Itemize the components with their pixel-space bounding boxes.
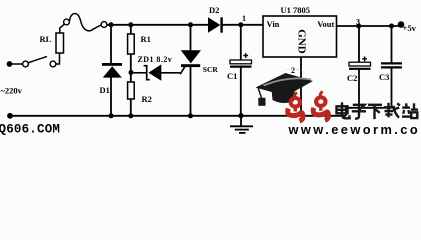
svg-text:GND: GND: [295, 29, 307, 54]
svg-text:Vin: Vin: [267, 19, 280, 29]
svg-text:~220v: ~220v: [1, 86, 23, 96]
svg-text:Q606.COM: Q606.COM: [0, 122, 60, 136]
svg-text:C1: C1: [227, 71, 237, 81]
svg-text:Vout: Vout: [317, 19, 334, 29]
svg-text:C2: C2: [347, 73, 357, 83]
svg-text:R1: R1: [141, 34, 151, 44]
svg-text:3: 3: [356, 18, 360, 27]
svg-text:D2: D2: [209, 5, 219, 15]
svg-text:D1: D1: [100, 85, 110, 95]
svg-text:ZD1 8.2v: ZD1 8.2v: [138, 55, 173, 64]
svg-text:U1 7805: U1 7805: [281, 5, 311, 15]
svg-text:RL: RL: [40, 34, 52, 44]
svg-text:1: 1: [242, 14, 246, 23]
svg-text:www.eeworm.com: www.eeworm.com: [288, 122, 421, 136]
svg-text:R2: R2: [142, 94, 152, 104]
svg-text:+5v: +5v: [403, 23, 417, 33]
svg-text:2: 2: [291, 66, 295, 75]
svg-text:C3: C3: [379, 72, 389, 82]
svg-text:SCR: SCR: [203, 65, 219, 74]
